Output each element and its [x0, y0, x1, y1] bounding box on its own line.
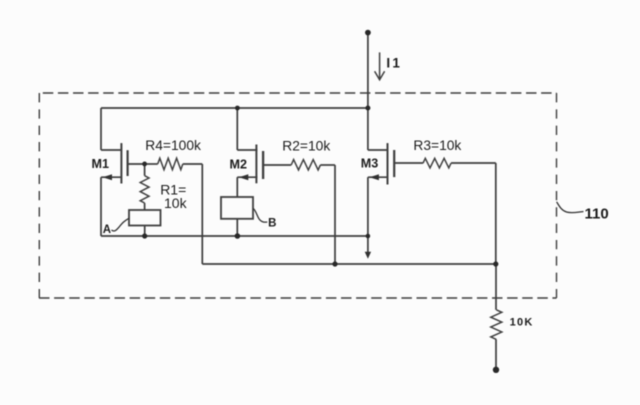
svg-text:R4=100k: R4=100k [145, 138, 201, 153]
svg-text:10k: 10k [164, 195, 188, 211]
svg-text:M2: M2 [230, 158, 248, 172]
svg-text:M1: M1 [92, 157, 110, 171]
svg-text:B: B [268, 217, 276, 229]
svg-text:10K: 10K [510, 317, 534, 329]
svg-text:110: 110 [585, 205, 609, 222]
svg-text:I: I [386, 56, 390, 71]
svg-text:R2=10k: R2=10k [282, 138, 330, 153]
svg-text:M3: M3 [361, 156, 379, 170]
svg-text:1: 1 [392, 56, 400, 71]
svg-text:R3=10k: R3=10k [413, 138, 461, 153]
svg-text:A: A [103, 224, 111, 236]
